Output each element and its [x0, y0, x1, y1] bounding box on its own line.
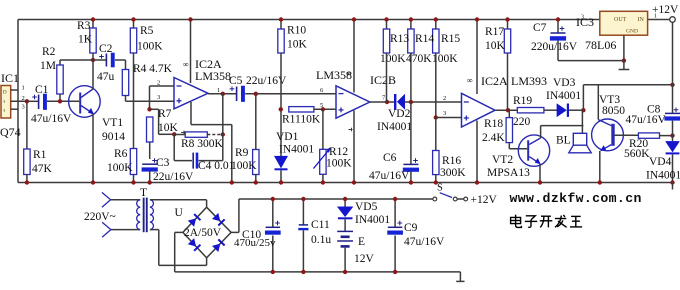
svg-text:47u/16V: 47u/16V [626, 114, 667, 126]
svg-text:8050: 8050 [602, 105, 625, 117]
svg-text:C7: C7 [533, 22, 547, 34]
svg-text:IC3: IC3 [576, 15, 594, 29]
svg-text:LM358: LM358 [316, 68, 352, 82]
svg-text:R4 4.7K: R4 4.7K [133, 63, 173, 75]
svg-text:100K: 100K [107, 162, 133, 174]
svg-text:100K: 100K [231, 160, 257, 172]
svg-text:∞: ∞ [467, 76, 473, 85]
svg-text:IC2B: IC2B [370, 73, 396, 87]
svg-text:2: 2 [22, 95, 25, 102]
svg-text:VD1: VD1 [276, 131, 299, 143]
svg-text:IN4001: IN4001 [646, 170, 680, 182]
svg-text:470u/25v: 470u/25v [234, 237, 276, 249]
svg-text:47u/16V: 47u/16V [31, 113, 72, 125]
svg-text:s: s [3, 109, 5, 114]
svg-text:2A/50V: 2A/50V [184, 227, 222, 239]
svg-text:IN4001: IN4001 [355, 214, 390, 226]
svg-text:D: D [3, 91, 7, 96]
svg-text:47u/16V: 47u/16V [369, 170, 410, 182]
svg-text:78L06: 78L06 [585, 38, 616, 52]
svg-text:47K: 47K [32, 163, 53, 175]
svg-text:U: U [175, 207, 184, 219]
svg-text:BL: BL [556, 135, 571, 147]
svg-text:+12V: +12V [471, 194, 498, 206]
svg-text:C5: C5 [229, 75, 243, 87]
svg-text:1: 1 [654, 14, 657, 20]
svg-text:3: 3 [157, 94, 160, 101]
svg-text:560K: 560K [624, 148, 650, 160]
svg-text:T: T [140, 187, 147, 199]
svg-text:IN4001: IN4001 [279, 144, 314, 156]
svg-text:1: 1 [22, 84, 25, 91]
svg-text:0.1u: 0.1u [311, 234, 331, 246]
svg-text:220u/16V: 220u/16V [531, 41, 578, 53]
svg-text:300K: 300K [440, 167, 466, 179]
svg-text:R14: R14 [415, 33, 434, 45]
svg-text:IN4001: IN4001 [546, 90, 581, 102]
svg-text:s: s [3, 100, 5, 105]
svg-text:C9: C9 [404, 222, 418, 234]
svg-text:VD3: VD3 [553, 77, 576, 89]
svg-text:IN4001: IN4001 [377, 121, 412, 133]
svg-text:47u: 47u [97, 71, 115, 83]
svg-text:VD2: VD2 [388, 108, 411, 120]
svg-text:R15: R15 [441, 33, 460, 45]
svg-text:C2: C2 [99, 43, 113, 55]
svg-text:IN: IN [638, 17, 645, 23]
svg-text:R2: R2 [42, 46, 56, 58]
svg-text:VT1: VT1 [102, 117, 123, 129]
svg-text:220: 220 [513, 116, 531, 128]
svg-text:R19: R19 [513, 95, 532, 107]
svg-text:C3: C3 [156, 157, 170, 169]
svg-text:100K: 100K [326, 158, 352, 170]
svg-text:∞: ∞ [183, 60, 189, 69]
svg-text:IC1: IC1 [1, 71, 19, 85]
svg-text:47u/16V: 47u/16V [404, 236, 445, 248]
svg-text:1M: 1M [40, 60, 56, 72]
svg-text:R8 300K: R8 300K [181, 138, 224, 150]
svg-text:100K: 100K [380, 53, 406, 65]
svg-text:R3: R3 [77, 20, 91, 32]
svg-text:IC2A: IC2A [481, 74, 508, 88]
svg-text:C6: C6 [383, 152, 397, 164]
svg-text:10K: 10K [158, 122, 179, 134]
svg-text:R13: R13 [390, 33, 409, 45]
svg-text:R18: R18 [484, 118, 503, 130]
svg-text:100K: 100K [137, 41, 163, 53]
svg-text:12V: 12V [354, 253, 375, 265]
svg-text:10K: 10K [485, 40, 506, 52]
svg-text:OUT: OUT [614, 17, 627, 23]
svg-text:R12: R12 [329, 146, 348, 158]
svg-text:C4 0.01: C4 0.01 [198, 160, 235, 172]
svg-text:R1110K: R1110K [282, 114, 321, 126]
svg-text:2.4K: 2.4K [482, 132, 505, 144]
svg-text:R1: R1 [33, 149, 47, 161]
svg-text:1K: 1K [78, 34, 93, 46]
svg-text:www.dzkfw.com.cn: www.dzkfw.com.cn [510, 191, 642, 206]
svg-text:LM393: LM393 [511, 74, 547, 88]
svg-text:2: 2 [157, 80, 160, 87]
svg-text:10K: 10K [287, 39, 308, 51]
svg-text:GND: GND [626, 29, 638, 35]
svg-text:E: E [358, 236, 365, 248]
svg-text:C1: C1 [35, 84, 49, 96]
svg-text:R17: R17 [485, 26, 504, 38]
svg-text:S: S [437, 183, 443, 194]
svg-text:3: 3 [443, 110, 446, 117]
svg-text:R16: R16 [442, 155, 461, 167]
svg-text:VD5: VD5 [355, 201, 378, 213]
svg-text:5: 5 [320, 102, 323, 109]
svg-text:R10: R10 [287, 25, 306, 37]
svg-text:R7: R7 [158, 108, 172, 120]
svg-text:Q74: Q74 [0, 125, 21, 139]
svg-text:R9: R9 [235, 147, 249, 159]
svg-text:VD4: VD4 [649, 156, 672, 168]
svg-text:22u/16V: 22u/16V [153, 171, 194, 183]
svg-text:2: 2 [443, 95, 446, 102]
svg-text:R6: R6 [114, 148, 128, 160]
svg-text:220V~: 220V~ [84, 211, 116, 223]
svg-text:470K: 470K [406, 53, 432, 65]
svg-text:3: 3 [22, 104, 25, 111]
svg-text:C11: C11 [311, 219, 330, 231]
svg-text:MPSA13: MPSA13 [487, 167, 530, 179]
svg-text:9014: 9014 [102, 131, 125, 143]
svg-text:R5: R5 [140, 25, 154, 37]
svg-text:1: 1 [217, 87, 220, 94]
svg-text:VT2: VT2 [492, 154, 513, 166]
svg-text:LM358: LM358 [195, 69, 231, 83]
